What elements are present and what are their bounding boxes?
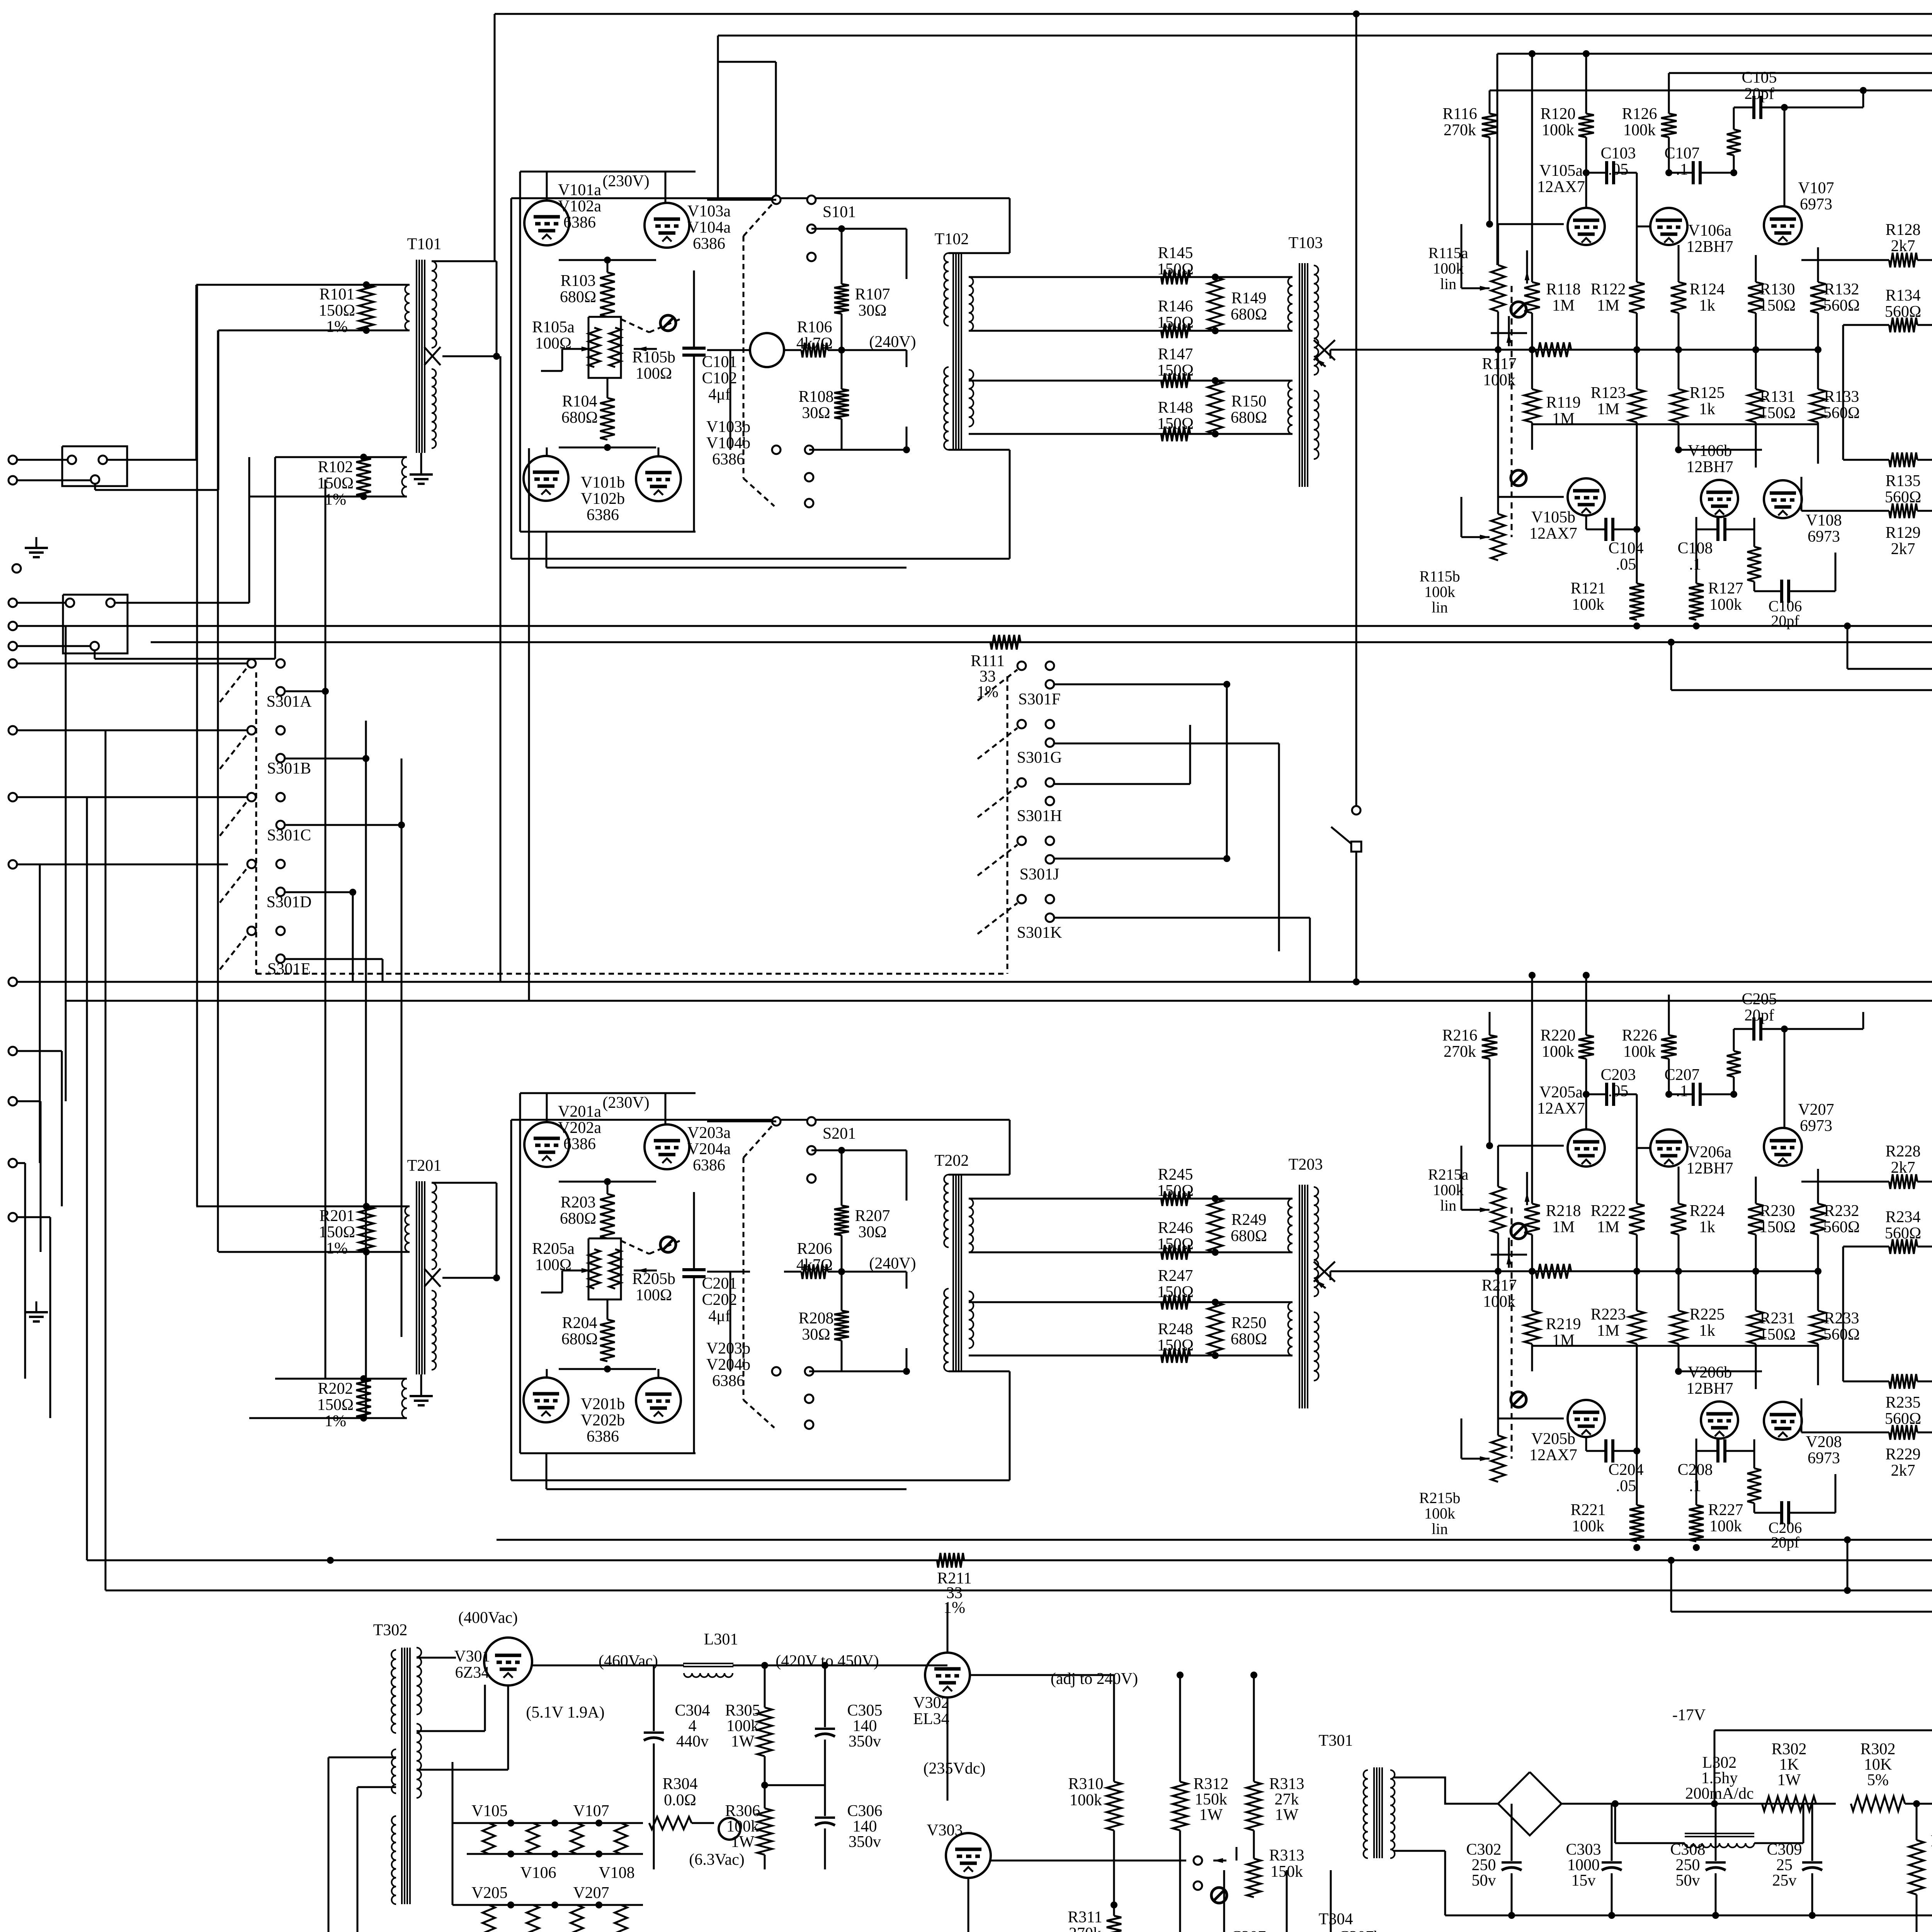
svg-text:C202: C202 bbox=[702, 1291, 737, 1309]
svg-text:680Ω: 680Ω bbox=[1231, 1330, 1267, 1348]
svg-text:(230V): (230V) bbox=[602, 1094, 649, 1112]
svg-text:150Ω: 150Ω bbox=[1157, 1283, 1194, 1301]
svg-text:(230V): (230V) bbox=[602, 172, 649, 190]
svg-text:150Ω: 150Ω bbox=[1157, 415, 1194, 433]
svg-text:100k: 100k bbox=[1483, 1293, 1515, 1311]
svg-text:S301C: S301C bbox=[267, 827, 311, 844]
svg-text:150Ω: 150Ω bbox=[1157, 1337, 1194, 1354]
svg-text:100k: 100k bbox=[1483, 371, 1515, 389]
svg-text:100k: 100k bbox=[1623, 1043, 1656, 1061]
svg-text:2k7: 2k7 bbox=[1891, 1462, 1915, 1480]
svg-text:12BH7: 12BH7 bbox=[1686, 1380, 1733, 1398]
svg-text:T103: T103 bbox=[1289, 234, 1323, 252]
svg-text:V205: V205 bbox=[471, 1884, 507, 1902]
svg-text:680Ω: 680Ω bbox=[1231, 1227, 1267, 1245]
svg-text:V101a: V101a bbox=[558, 181, 601, 199]
svg-text:150Ω: 150Ω bbox=[1157, 260, 1194, 278]
svg-text:680Ω: 680Ω bbox=[1231, 306, 1267, 323]
svg-text:150Ω: 150Ω bbox=[1759, 1218, 1796, 1236]
svg-text:V301: V301 bbox=[454, 1648, 490, 1665]
svg-text:lin: lin bbox=[1440, 1197, 1456, 1214]
svg-text:12BH7: 12BH7 bbox=[1686, 238, 1733, 256]
svg-text:T301: T301 bbox=[1319, 1732, 1353, 1750]
svg-text:1%: 1% bbox=[944, 1599, 965, 1617]
svg-text:R250: R250 bbox=[1231, 1314, 1266, 1332]
svg-text:6Z34: 6Z34 bbox=[455, 1664, 490, 1682]
svg-text:(240V): (240V) bbox=[869, 1255, 916, 1272]
svg-text:1M: 1M bbox=[1552, 1218, 1575, 1236]
svg-text:R102: R102 bbox=[318, 458, 353, 476]
svg-text:lin: lin bbox=[1432, 1520, 1448, 1537]
svg-text:.1: .1 bbox=[1689, 1477, 1701, 1495]
svg-text:C101: C101 bbox=[702, 353, 737, 371]
svg-text:1W: 1W bbox=[1777, 1771, 1801, 1789]
svg-text:25v: 25v bbox=[1772, 1872, 1797, 1889]
svg-text:1%: 1% bbox=[326, 318, 348, 336]
svg-text:100Ω: 100Ω bbox=[636, 1286, 672, 1304]
svg-text:R226: R226 bbox=[1622, 1027, 1657, 1044]
svg-text:20pf: 20pf bbox=[1745, 1007, 1774, 1024]
svg-text:R147: R147 bbox=[1158, 345, 1193, 363]
svg-text:V207: V207 bbox=[1798, 1101, 1834, 1119]
svg-text:T202: T202 bbox=[935, 1152, 969, 1170]
svg-text:R232: R232 bbox=[1824, 1202, 1859, 1220]
svg-text:R235: R235 bbox=[1885, 1394, 1920, 1412]
svg-text:R222: R222 bbox=[1590, 1202, 1626, 1220]
svg-text:EL34: EL34 bbox=[913, 1710, 949, 1728]
svg-text:680Ω: 680Ω bbox=[1231, 409, 1267, 427]
svg-text:V106: V106 bbox=[520, 1864, 556, 1882]
svg-text:R146: R146 bbox=[1158, 298, 1193, 315]
svg-text:C107: C107 bbox=[1664, 145, 1699, 162]
svg-text:(460Vac): (460Vac) bbox=[599, 1652, 658, 1670]
svg-text:R107: R107 bbox=[855, 286, 890, 303]
svg-text:R135: R135 bbox=[1885, 472, 1920, 490]
svg-text:680Ω: 680Ω bbox=[560, 1210, 596, 1228]
svg-text:V203a: V203a bbox=[687, 1124, 731, 1142]
svg-text:12AX7: 12AX7 bbox=[1529, 525, 1577, 543]
svg-text:6973: 6973 bbox=[1808, 528, 1840, 546]
svg-text:150Ω: 150Ω bbox=[1157, 1235, 1194, 1253]
svg-text:V302: V302 bbox=[913, 1694, 949, 1712]
svg-text:R303: R303 bbox=[1930, 1832, 1932, 1850]
svg-text:50v: 50v bbox=[1676, 1872, 1700, 1889]
svg-text:R105b: R105b bbox=[632, 349, 675, 366]
svg-text:V206b: V206b bbox=[1688, 1364, 1732, 1381]
svg-text:150Ω: 150Ω bbox=[317, 474, 354, 492]
svg-text:S301B: S301B bbox=[267, 760, 311, 777]
svg-text:S301H: S301H bbox=[1017, 807, 1062, 825]
svg-text:R121: R121 bbox=[1570, 580, 1605, 597]
svg-text:1W: 1W bbox=[1275, 1806, 1299, 1824]
svg-text:4k7Ω: 4k7Ω bbox=[796, 1256, 833, 1274]
svg-text:lin: lin bbox=[1432, 599, 1448, 616]
svg-text:R133: R133 bbox=[1824, 388, 1859, 406]
svg-text:560Ω: 560Ω bbox=[1823, 1218, 1860, 1236]
svg-text:T304: T304 bbox=[1319, 1910, 1353, 1928]
svg-text:V102b: V102b bbox=[581, 490, 625, 508]
svg-text:680Ω: 680Ω bbox=[560, 288, 596, 306]
svg-text:S301G: S301G bbox=[1017, 749, 1062, 767]
svg-text:1W: 1W bbox=[1199, 1806, 1223, 1824]
svg-text:R205a: R205a bbox=[532, 1240, 575, 1258]
svg-text:R125: R125 bbox=[1689, 384, 1725, 402]
svg-text:V303: V303 bbox=[927, 1821, 963, 1839]
svg-text:S301F: S301F bbox=[1018, 690, 1061, 708]
svg-text:2k7: 2k7 bbox=[1891, 237, 1915, 255]
svg-text:T302: T302 bbox=[373, 1621, 408, 1639]
svg-text:R104: R104 bbox=[562, 393, 597, 410]
svg-text:R128: R128 bbox=[1885, 221, 1920, 239]
svg-text:S101: S101 bbox=[823, 203, 856, 221]
svg-text:T201: T201 bbox=[407, 1157, 442, 1175]
svg-text:6386: 6386 bbox=[712, 1372, 745, 1390]
svg-text:R124: R124 bbox=[1689, 281, 1725, 298]
svg-text:R231: R231 bbox=[1760, 1310, 1795, 1327]
svg-text:S301E: S301E bbox=[267, 960, 311, 978]
svg-text:100k: 100k bbox=[1709, 596, 1742, 614]
svg-text:R221: R221 bbox=[1570, 1501, 1605, 1519]
svg-text:C108: C108 bbox=[1677, 539, 1713, 557]
svg-text:270k: 270k bbox=[1444, 1043, 1476, 1061]
svg-text:V105b: V105b bbox=[1531, 509, 1575, 526]
svg-text:(420V to 450V): (420V to 450V) bbox=[776, 1652, 879, 1670]
svg-text:C102: C102 bbox=[702, 369, 737, 387]
svg-text:R149: R149 bbox=[1231, 289, 1266, 307]
svg-text:560Ω: 560Ω bbox=[1885, 303, 1921, 321]
svg-text:C205: C205 bbox=[1742, 990, 1777, 1008]
svg-text:V204a: V204a bbox=[687, 1140, 731, 1158]
svg-text:lin: lin bbox=[1440, 275, 1456, 293]
svg-text:V102a: V102a bbox=[558, 197, 601, 215]
svg-text:100k: 100k bbox=[1070, 1791, 1102, 1809]
svg-text:R223: R223 bbox=[1590, 1306, 1626, 1323]
svg-text:R203: R203 bbox=[560, 1194, 595, 1211]
svg-text:R117: R117 bbox=[1482, 355, 1516, 373]
svg-text:R219: R219 bbox=[1546, 1315, 1581, 1333]
svg-text:V104a: V104a bbox=[687, 219, 731, 236]
svg-text:V205b: V205b bbox=[1531, 1430, 1575, 1448]
svg-text:S301K: S301K bbox=[1017, 924, 1062, 942]
svg-text:C207: C207 bbox=[1664, 1066, 1699, 1084]
svg-text:T203: T203 bbox=[1289, 1156, 1323, 1173]
svg-text:R122: R122 bbox=[1590, 281, 1626, 298]
svg-text:1%: 1% bbox=[326, 1240, 348, 1257]
svg-text:680Ω: 680Ω bbox=[561, 1330, 598, 1348]
svg-text:1M: 1M bbox=[1597, 297, 1619, 315]
svg-text:C208: C208 bbox=[1677, 1461, 1713, 1479]
svg-text:S201: S201 bbox=[823, 1125, 856, 1143]
svg-text:20pf: 20pf bbox=[1771, 1534, 1799, 1551]
svg-text:6386: 6386 bbox=[693, 1156, 725, 1174]
svg-text:6973: 6973 bbox=[1808, 1449, 1840, 1467]
svg-text:(240V): (240V) bbox=[869, 333, 916, 351]
svg-text:R106: R106 bbox=[797, 318, 832, 336]
svg-text:R115b: R115b bbox=[1419, 568, 1460, 585]
svg-text:C203: C203 bbox=[1600, 1066, 1636, 1084]
svg-text:12AX7: 12AX7 bbox=[1529, 1446, 1577, 1464]
svg-text:6973: 6973 bbox=[1800, 1117, 1832, 1135]
svg-text:R123: R123 bbox=[1590, 384, 1626, 402]
svg-text:V202b: V202b bbox=[581, 1412, 625, 1429]
svg-text:R249: R249 bbox=[1231, 1211, 1266, 1229]
svg-text:100k: 100k bbox=[1542, 121, 1574, 139]
svg-text:(6.3Vac): (6.3Vac) bbox=[689, 1851, 744, 1869]
svg-text:560Ω: 560Ω bbox=[1823, 297, 1860, 315]
svg-text:C204: C204 bbox=[1608, 1461, 1643, 1479]
svg-text:R105a: R105a bbox=[532, 318, 575, 336]
svg-text:150Ω: 150Ω bbox=[1157, 314, 1194, 332]
svg-text:100k: 100k bbox=[1572, 1517, 1604, 1535]
svg-text:12BH7: 12BH7 bbox=[1686, 458, 1733, 476]
svg-text:150Ω: 150Ω bbox=[1759, 404, 1796, 422]
svg-text:30Ω: 30Ω bbox=[802, 404, 830, 422]
svg-text:150Ω: 150Ω bbox=[1157, 362, 1194, 379]
svg-text:V106b: V106b bbox=[1688, 442, 1732, 460]
svg-text:6386: 6386 bbox=[563, 1135, 596, 1153]
svg-text:1%: 1% bbox=[325, 1412, 346, 1430]
svg-text:100k: 100k bbox=[1623, 121, 1656, 139]
svg-text:6386: 6386 bbox=[587, 1428, 619, 1446]
svg-text:R304: R304 bbox=[662, 1775, 697, 1793]
svg-text:R246: R246 bbox=[1158, 1219, 1193, 1237]
svg-text:C307b: C307b bbox=[1338, 1928, 1382, 1932]
svg-text:15v: 15v bbox=[1571, 1872, 1596, 1889]
svg-text:.1: .1 bbox=[1676, 1082, 1688, 1100]
svg-text:6973: 6973 bbox=[1800, 196, 1832, 213]
svg-text:560Ω: 560Ω bbox=[1823, 404, 1860, 422]
svg-text:R215b: R215b bbox=[1419, 1489, 1461, 1507]
svg-text:(400Vac): (400Vac) bbox=[458, 1609, 518, 1627]
svg-text:R126: R126 bbox=[1622, 105, 1657, 123]
svg-text:S301J: S301J bbox=[1020, 866, 1060, 883]
svg-text:R311: R311 bbox=[1068, 1908, 1102, 1926]
svg-text:100k: 100k bbox=[1709, 1517, 1742, 1535]
svg-text:30Ω: 30Ω bbox=[858, 302, 886, 320]
svg-text:T102: T102 bbox=[935, 230, 969, 248]
svg-text:(adj to 240V): (adj to 240V) bbox=[1051, 1670, 1138, 1688]
svg-text:R118: R118 bbox=[1546, 281, 1580, 298]
svg-text:V107: V107 bbox=[1798, 179, 1834, 197]
svg-text:V101b: V101b bbox=[581, 474, 625, 492]
svg-text:100Ω: 100Ω bbox=[636, 365, 672, 383]
svg-text:R216: R216 bbox=[1442, 1027, 1477, 1044]
svg-text:270k: 270k bbox=[1444, 121, 1476, 139]
svg-text:R148: R148 bbox=[1158, 399, 1193, 417]
svg-text:R313: R313 bbox=[1269, 1847, 1304, 1864]
svg-text:.05: .05 bbox=[1608, 161, 1629, 179]
svg-text:R119: R119 bbox=[1546, 394, 1580, 412]
svg-text:270k: 270k bbox=[1069, 1925, 1101, 1932]
svg-text:R127: R127 bbox=[1708, 580, 1743, 597]
svg-text:12BH7: 12BH7 bbox=[1686, 1160, 1733, 1177]
svg-text:R233: R233 bbox=[1824, 1310, 1859, 1327]
svg-text:R224: R224 bbox=[1689, 1202, 1725, 1220]
svg-text:R248: R248 bbox=[1158, 1320, 1193, 1338]
svg-text:C105: C105 bbox=[1742, 69, 1777, 87]
svg-text:R132: R132 bbox=[1824, 281, 1859, 298]
svg-text:5%: 5% bbox=[1867, 1771, 1889, 1789]
svg-text:R245: R245 bbox=[1158, 1166, 1193, 1184]
svg-text:4k7Ω: 4k7Ω bbox=[796, 335, 833, 352]
svg-text:R230: R230 bbox=[1760, 1202, 1795, 1220]
svg-text:R229: R229 bbox=[1885, 1446, 1920, 1463]
svg-text:12AX7: 12AX7 bbox=[1537, 1100, 1585, 1117]
svg-text:V206a: V206a bbox=[1688, 1143, 1731, 1161]
svg-text:T101: T101 bbox=[407, 235, 442, 253]
svg-text:200mA/dc: 200mA/dc bbox=[1685, 1785, 1753, 1803]
svg-text:150Ω: 150Ω bbox=[319, 1223, 355, 1241]
svg-text:2k7: 2k7 bbox=[1891, 1159, 1915, 1177]
svg-text:R103: R103 bbox=[560, 272, 595, 290]
svg-text:V202a: V202a bbox=[558, 1119, 601, 1137]
svg-text:R204: R204 bbox=[562, 1314, 597, 1332]
svg-text:R202: R202 bbox=[318, 1380, 353, 1398]
svg-text:V108: V108 bbox=[1806, 512, 1842, 529]
svg-text:S301A: S301A bbox=[267, 693, 312, 711]
svg-text:(5.1V 1.9A): (5.1V 1.9A) bbox=[526, 1704, 604, 1721]
svg-text:1M: 1M bbox=[1597, 400, 1619, 418]
svg-text:V201b: V201b bbox=[581, 1395, 625, 1413]
svg-text:.1: .1 bbox=[1676, 161, 1688, 179]
svg-text:1M: 1M bbox=[1597, 1322, 1619, 1340]
svg-text:1M: 1M bbox=[1552, 297, 1575, 315]
svg-text:V108: V108 bbox=[599, 1864, 634, 1882]
svg-text:12AX7: 12AX7 bbox=[1537, 178, 1585, 196]
svg-text:6386: 6386 bbox=[712, 451, 745, 468]
svg-text:S301D: S301D bbox=[267, 893, 312, 911]
svg-text:C201: C201 bbox=[702, 1275, 737, 1293]
svg-text:R145: R145 bbox=[1158, 244, 1193, 262]
svg-text:1k: 1k bbox=[1699, 297, 1715, 315]
svg-text:.1: .1 bbox=[1689, 556, 1701, 573]
svg-text:R217: R217 bbox=[1481, 1277, 1517, 1294]
svg-text:R215a: R215a bbox=[1428, 1166, 1469, 1183]
svg-text:1k: 1k bbox=[1699, 1218, 1715, 1236]
svg-text:R108: R108 bbox=[798, 388, 833, 406]
svg-text:680Ω: 680Ω bbox=[561, 409, 598, 427]
svg-text:.05: .05 bbox=[1616, 556, 1636, 573]
svg-text:100k: 100k bbox=[1424, 1505, 1455, 1522]
svg-text:20pf: 20pf bbox=[1745, 85, 1774, 103]
svg-text:1k: 1k bbox=[1699, 400, 1715, 418]
svg-text:R129: R129 bbox=[1885, 524, 1920, 542]
svg-text:.05: .05 bbox=[1608, 1082, 1629, 1100]
svg-text:R247: R247 bbox=[1158, 1267, 1193, 1285]
svg-text:1W: 1W bbox=[731, 1833, 755, 1851]
svg-text:350v: 350v bbox=[849, 1833, 881, 1851]
svg-text:R234: R234 bbox=[1885, 1208, 1920, 1226]
svg-text:350v: 350v bbox=[849, 1733, 881, 1750]
svg-text:R207: R207 bbox=[855, 1207, 890, 1225]
svg-text:4μf: 4μf bbox=[708, 386, 731, 403]
svg-text:50v: 50v bbox=[1472, 1872, 1496, 1889]
svg-text:V205a: V205a bbox=[1539, 1083, 1583, 1101]
svg-text:100k: 100k bbox=[1433, 260, 1464, 277]
svg-text:V105: V105 bbox=[471, 1802, 507, 1820]
svg-text:100k: 100k bbox=[1433, 1181, 1464, 1199]
svg-text:R101: R101 bbox=[319, 286, 354, 303]
svg-text:R205b: R205b bbox=[632, 1270, 675, 1288]
svg-text:560Ω: 560Ω bbox=[1885, 1225, 1921, 1242]
svg-text:150Ω: 150Ω bbox=[319, 302, 355, 320]
svg-text:V201a: V201a bbox=[558, 1103, 601, 1121]
svg-text:6386: 6386 bbox=[563, 214, 596, 231]
svg-text:C103: C103 bbox=[1600, 145, 1636, 162]
svg-text:30Ω: 30Ω bbox=[858, 1223, 886, 1241]
svg-text:.05: .05 bbox=[1616, 1477, 1636, 1495]
svg-text:100k: 100k bbox=[1424, 583, 1455, 600]
svg-text:440v: 440v bbox=[676, 1733, 709, 1750]
svg-text:1k: 1k bbox=[1699, 1322, 1715, 1340]
svg-text:R228: R228 bbox=[1885, 1143, 1920, 1160]
svg-text:V103a: V103a bbox=[687, 202, 731, 220]
svg-text:R225: R225 bbox=[1689, 1306, 1725, 1323]
svg-text:R206: R206 bbox=[797, 1240, 832, 1258]
svg-text:R134: R134 bbox=[1885, 287, 1920, 304]
svg-text:C104: C104 bbox=[1608, 539, 1643, 557]
svg-text:150Ω: 150Ω bbox=[1759, 1326, 1796, 1344]
svg-text:R150: R150 bbox=[1231, 393, 1266, 410]
svg-text:2k7: 2k7 bbox=[1891, 540, 1915, 558]
svg-text:R218: R218 bbox=[1546, 1202, 1581, 1220]
svg-text:4μf: 4μf bbox=[708, 1307, 731, 1325]
svg-text:1%: 1% bbox=[325, 491, 346, 509]
svg-text:150Ω: 150Ω bbox=[1157, 1182, 1194, 1200]
svg-text:V106a: V106a bbox=[1688, 222, 1731, 240]
svg-text:V208: V208 bbox=[1806, 1433, 1842, 1451]
svg-text:-17V: -17V bbox=[1672, 1706, 1706, 1724]
svg-text:C307a: C307a bbox=[1231, 1928, 1273, 1932]
svg-text:R131: R131 bbox=[1760, 388, 1795, 406]
svg-text:V105a: V105a bbox=[1539, 162, 1583, 180]
svg-text:150Ω: 150Ω bbox=[1759, 297, 1796, 315]
svg-text:R227: R227 bbox=[1708, 1501, 1743, 1519]
svg-text:150Ω: 150Ω bbox=[317, 1396, 354, 1414]
svg-text:R120: R120 bbox=[1540, 105, 1575, 123]
svg-text:L301: L301 bbox=[704, 1631, 738, 1648]
svg-text:6386: 6386 bbox=[693, 235, 725, 253]
svg-text:V207: V207 bbox=[573, 1884, 609, 1902]
svg-text:6386: 6386 bbox=[587, 506, 619, 524]
svg-text:R130: R130 bbox=[1760, 281, 1795, 298]
svg-text:1W: 1W bbox=[731, 1733, 755, 1750]
svg-text:30Ω: 30Ω bbox=[802, 1326, 830, 1344]
svg-text:R116: R116 bbox=[1442, 105, 1477, 123]
svg-text:100k: 100k bbox=[1572, 596, 1604, 614]
svg-text:R220: R220 bbox=[1540, 1027, 1575, 1044]
svg-text:560Ω: 560Ω bbox=[1823, 1326, 1860, 1344]
svg-text:100k: 100k bbox=[1542, 1043, 1574, 1061]
svg-text:0.0Ω: 0.0Ω bbox=[664, 1791, 696, 1809]
svg-text:1M: 1M bbox=[1597, 1218, 1619, 1236]
svg-text:R208: R208 bbox=[798, 1310, 833, 1327]
svg-text:V107: V107 bbox=[573, 1802, 609, 1820]
svg-text:R310: R310 bbox=[1068, 1775, 1103, 1793]
svg-text:(235Vdc): (235Vdc) bbox=[923, 1760, 986, 1777]
